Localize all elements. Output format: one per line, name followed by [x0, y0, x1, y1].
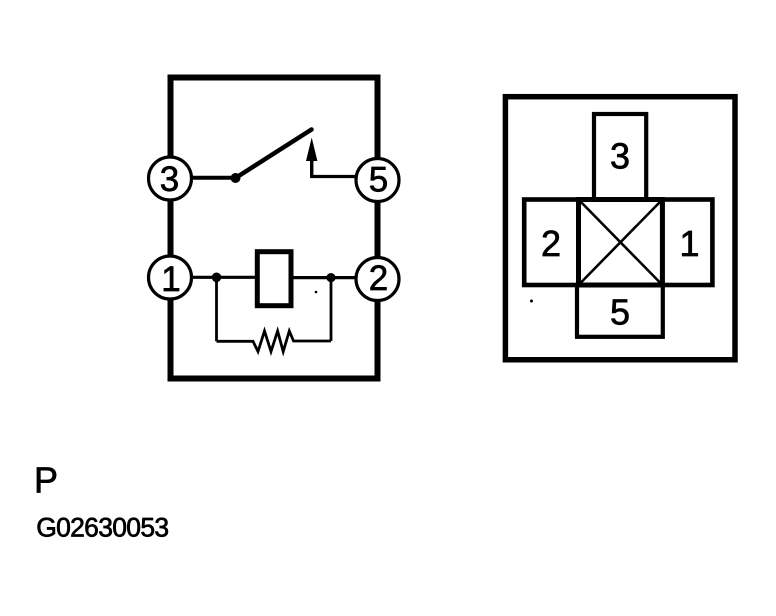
terminal 2: [356, 258, 399, 301]
svg-text:G02630053: G02630053: [36, 513, 168, 543]
scan speck near node: [315, 291, 318, 294]
wire terminal 1 to coil: [192, 276, 257, 279]
svg-text:5: 5: [369, 161, 388, 200]
pin cavity 5: [577, 285, 663, 337]
svg-text:1: 1: [679, 223, 699, 264]
svg-text:1: 1: [161, 260, 180, 299]
wire switch input: terminal 3 to junction: [192, 176, 236, 180]
terminal 5: [356, 159, 399, 202]
switch blade SW1: [236, 130, 312, 179]
svg-text:P: P: [34, 460, 58, 501]
wire resistor branch left drop: [215, 277, 218, 341]
pin cavity 1: [662, 200, 712, 286]
junction node right of coil: [326, 273, 335, 282]
terminal 1: [149, 256, 192, 299]
svg-text:2: 2: [541, 223, 561, 264]
svg-text:3: 3: [160, 160, 179, 199]
center keyway with X: [579, 200, 663, 286]
wire arrow corner to terminal 5: [312, 158, 357, 177]
wire resistor branch right rise: [330, 278, 333, 341]
terminal 3: [149, 157, 192, 200]
svg-text:3: 3: [610, 135, 630, 176]
scan speck near pin 2: [530, 300, 533, 303]
svg-text:5: 5: [610, 291, 630, 332]
relay case outline: [171, 78, 378, 379]
resistor R1 zigzag: [217, 331, 332, 352]
relay coil K1: [257, 252, 291, 306]
svg-text:2: 2: [369, 259, 388, 298]
wire coil to terminal 2: [292, 276, 357, 279]
pin cavity 2: [524, 200, 578, 286]
pin cavity 3: [594, 114, 646, 200]
junction node left of coil: [212, 273, 222, 283]
connector housing: [505, 97, 735, 360]
actuator arrow: [306, 138, 317, 177]
junction dot at switch pivot: [231, 173, 241, 183]
